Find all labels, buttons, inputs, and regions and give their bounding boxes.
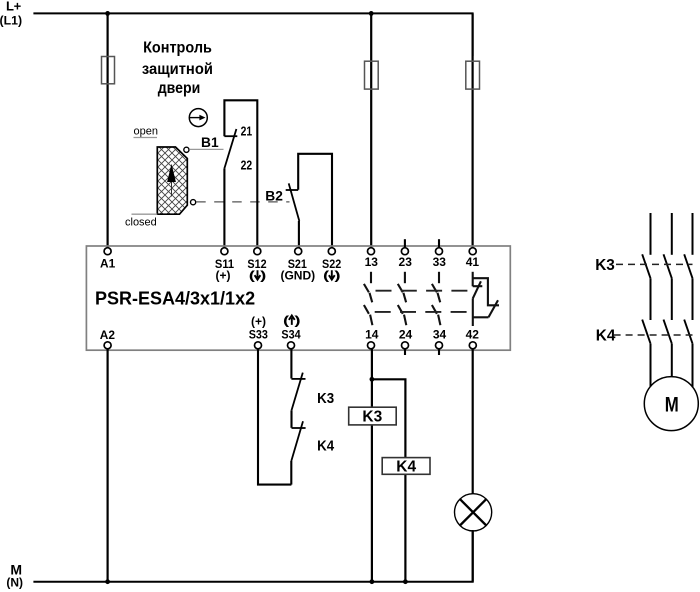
switch B2 (door position contact): [265, 154, 332, 248]
mechanical link door to B2 (dashed): [196, 201, 289, 203]
junction dot rail K4: [403, 579, 408, 584]
wire 42 down to lamp: [472, 349, 474, 494]
svg-text:closed: closed: [125, 217, 157, 229]
safety door symbol B1/B2 actuator (hatched door): [140, 65, 225, 304]
node L+ (L1) supply label: [0, 0, 22, 28]
svg-text:(+): (+): [251, 314, 266, 328]
svg-text:22: 22: [241, 159, 253, 173]
svg-text:23: 23: [399, 255, 413, 269]
terminal 14: [365, 327, 379, 349]
terminal A2: [100, 328, 116, 349]
terminal A1: [100, 248, 116, 271]
wire K4 aux to S33 loop: [290, 461, 292, 485]
motor M: [644, 377, 698, 431]
wire L+ to fuse F2 to 13: [370, 13, 372, 247]
contact fixed tick B2: [286, 189, 299, 191]
svg-text:B1: B1: [201, 135, 219, 150]
stub below terminal 34: [438, 349, 440, 355]
terminal S22: [322, 248, 341, 283]
wire 14 down to K3 coil and M rail: [371, 349, 373, 582]
relay module PSR-ESA4 box: [86, 246, 510, 350]
fuse F1: [102, 57, 115, 84]
wire L+ to fuse F3 to 41: [472, 13, 474, 247]
svg-text:21: 21: [241, 125, 253, 139]
stub below terminal 24: [404, 349, 406, 355]
actuator symbol (circle with arrow): [189, 109, 207, 127]
closed position line: [132, 213, 158, 215]
contact arm B1: [224, 129, 236, 168]
svg-text:41: 41: [466, 255, 480, 269]
svg-text:B2: B2: [265, 188, 283, 203]
svg-text:(L1): (L1): [0, 14, 22, 28]
stub above terminal 23: [404, 239, 406, 247]
stub above terminal 33: [438, 239, 440, 247]
open position line: [134, 137, 158, 139]
terminal 42: [466, 327, 480, 349]
internal contact 23-24: [398, 272, 407, 325]
junction dot rail K3: [370, 579, 375, 584]
mechanical link dashes (upper row): [376, 290, 471, 292]
terminal 34: [433, 327, 447, 349]
K4 linkage dashes: [614, 334, 693, 336]
wire between aux contacts: [290, 410, 292, 427]
door arrow (direction of actuation): [167, 164, 176, 182]
door contact node circle (bottom, to B2): [191, 200, 196, 205]
wire contact to S11: [223, 168, 225, 247]
three phase feeder L2 wire: [671, 213, 673, 255]
wire L+ to fuse F1 to A1: [106, 13, 108, 247]
wire branch to K4 coil: [372, 379, 406, 581]
svg-text:34: 34: [433, 327, 447, 341]
svg-text:S34: S34: [281, 327, 300, 341]
switch B1 (door position contact 21-22): [201, 100, 257, 247]
svg-text:14: 14: [365, 327, 379, 341]
K3 aux NC contact (feedback): [291, 373, 305, 411]
wire B2 to S21: [298, 221, 300, 248]
wire S22 to top of B2: [298, 154, 332, 248]
svg-text:PSR-ESA4/3x1/1x2: PSR-ESA4/3x1/1x2: [95, 289, 255, 309]
terminal 24: [399, 327, 413, 349]
contact arm B2: [289, 183, 300, 221]
indicator lamp: [455, 494, 492, 531]
svg-text:K3: K3: [595, 257, 615, 274]
svg-text:Контроль: Контроль: [143, 40, 212, 57]
svg-text:K3: K3: [317, 390, 334, 407]
terminal 41: [466, 248, 480, 269]
terminal 23: [399, 248, 413, 269]
terminal 33: [433, 248, 447, 269]
junction dot on L+ rail at A1 branch: [105, 11, 110, 16]
contactor K4 main contacts: [642, 320, 692, 344]
svg-text:K4: K4: [396, 459, 416, 476]
mechanical link dashes (lower row): [375, 311, 470, 313]
svg-text:24: 24: [399, 327, 413, 341]
terminal S11: [215, 248, 234, 283]
wire S34 down to K3 aux contact: [290, 349, 292, 379]
svg-text:A2: A2: [100, 328, 116, 342]
three phase feeder L3 wire: [692, 213, 694, 255]
title text Контроль защитной двери: [142, 40, 213, 97]
fuse F2: [365, 61, 379, 89]
svg-text:(N): (N): [6, 576, 23, 590]
junction dot K4 branch: [370, 377, 375, 382]
terminal S12: [247, 248, 266, 283]
mechanical link door to B1 (solid thin): [189, 148, 223, 150]
svg-text:13: 13: [365, 255, 379, 269]
internal linked NC contact 41-42: [473, 272, 499, 326]
contact 21 fixed tick: [224, 135, 237, 137]
wire S33 down: [258, 349, 291, 485]
internal contact 13-14: [364, 272, 373, 325]
svg-text:K4: K4: [317, 438, 335, 455]
junction dot on L+ rail at 13 branch: [369, 11, 374, 16]
svg-text:двери: двери: [158, 80, 201, 97]
terminal S34: [281, 314, 300, 349]
junction dot rail A2: [105, 579, 110, 584]
svg-text:33: 33: [433, 255, 447, 269]
wire L+ top rail: [33, 13, 472, 56]
wire lamp to M rail: [472, 531, 474, 582]
door contact node circle (top, to B1): [184, 147, 189, 152]
svg-text:S33: S33: [249, 327, 268, 341]
wire M bottom rail: [33, 530, 472, 582]
phase wires between K3 and K4: [651, 278, 693, 320]
relay coil K4: [382, 458, 430, 476]
terminal S21: [280, 248, 315, 283]
svg-text:(+): (+): [216, 268, 231, 282]
svg-text:A1: A1: [100, 257, 116, 271]
svg-text:защитной: защитной: [142, 61, 213, 78]
terminal 13: [365, 248, 379, 269]
svg-text:42: 42: [466, 327, 480, 341]
svg-text:M: M: [665, 392, 679, 416]
phase wires to motor: [651, 344, 693, 388]
K3 linkage dashes: [616, 263, 693, 265]
fuse F3: [466, 61, 480, 89]
wire S11 up to contact 21: [224, 100, 257, 247]
svg-text:L+: L+: [6, 0, 22, 13]
svg-text:open: open: [134, 126, 158, 138]
terminal S33: [249, 314, 268, 349]
svg-text:K3: K3: [362, 408, 382, 425]
internal contact 33-34: [432, 272, 441, 325]
contactor K3 main contacts: [642, 254, 692, 278]
relay coil K3: [349, 407, 397, 425]
svg-text:K4: K4: [596, 328, 616, 345]
node M (N) return label: [6, 562, 23, 590]
three phase feeder L1 wire: [650, 213, 652, 255]
svg-text:(GND): (GND): [280, 268, 315, 282]
wire A2 to M rail: [106, 349, 108, 582]
K4 aux NC contact (feedback): [291, 421, 305, 461]
